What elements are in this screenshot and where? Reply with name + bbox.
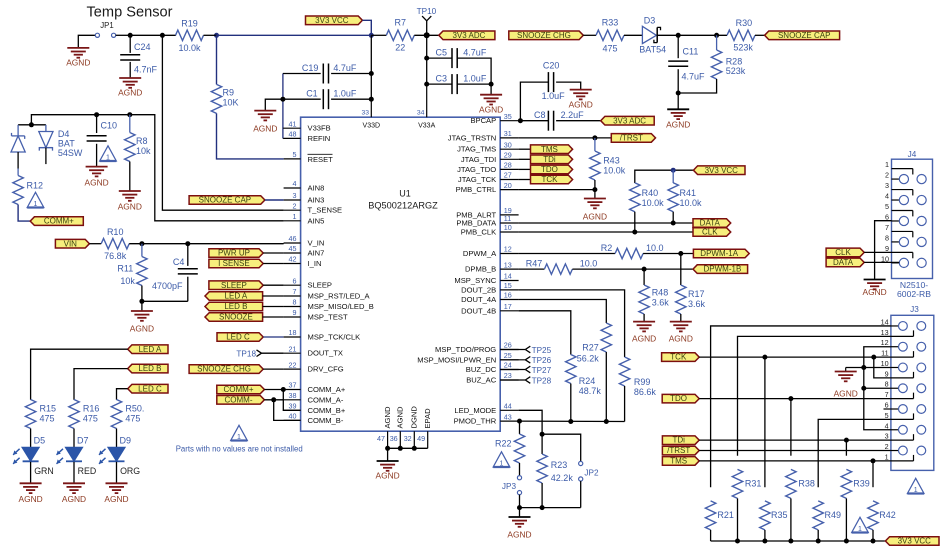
U1 pin 33 V33D: [370, 99, 372, 117]
U1 pin 20 PMB_CTRL: [500, 189, 518, 191]
svg-text:TP10: TP10: [417, 7, 437, 16]
svg-text:5: 5: [293, 150, 297, 159]
svg-text:R40: R40: [642, 188, 659, 198]
warning triangle 1 near R12: [27, 192, 44, 207]
ground AGND under R48: [633, 321, 655, 323]
svg-text:R8: R8: [136, 136, 148, 146]
svg-text:JP1: JP1: [100, 21, 113, 30]
flag TMS at J3: [662, 457, 699, 466]
svg-text:D4: D4: [58, 129, 70, 139]
svg-text:34: 34: [417, 110, 425, 117]
svg-text:C4: C4: [173, 257, 185, 267]
svg-text:5: 5: [885, 202, 889, 211]
svg-text:COMM+: COMM+: [224, 385, 254, 394]
svg-text:R22: R22: [495, 439, 512, 449]
ground AGND right of C20: [570, 89, 592, 91]
svg-text:R38: R38: [798, 479, 815, 489]
svg-text:MSP_MOSI/LPWR_EN: MSP_MOSI/LPWR_EN: [417, 355, 496, 364]
node junction TP10: [424, 32, 430, 38]
resistor R10 76.8k: [101, 239, 129, 249]
node junction COMM- pin38: [271, 397, 276, 402]
svg-text:AGND: AGND: [62, 494, 86, 504]
J3 pin circles row pins 10/9: [899, 363, 908, 372]
J4 pin circles row 2: [899, 195, 908, 204]
U1 pin 48 REFIN: [284, 137, 301, 139]
svg-text:R50.: R50.: [125, 404, 144, 414]
svg-text:I_IN: I_IN: [308, 259, 322, 268]
wire R30 to flag: [755, 34, 765, 36]
svg-text:8: 8: [885, 233, 889, 242]
svg-text:DOUT_4A: DOUT_4A: [461, 295, 497, 304]
svg-text:AGND: AGND: [479, 105, 503, 115]
flag DATA: [693, 219, 731, 228]
jumper JP2: [542, 434, 581, 461]
U1 pin 49 EPAD: [427, 431, 429, 448]
svg-text:AGND: AGND: [507, 530, 531, 540]
U1 pin 39 COMM_B+: [284, 409, 301, 411]
resistor R30 523k: [727, 30, 755, 40]
node junction R28 top: [714, 33, 719, 38]
wire COMM- to pin 40: [274, 400, 301, 421]
svg-text:27: 27: [504, 171, 512, 180]
svg-text:25: 25: [504, 351, 512, 360]
svg-text:SNOOZE CHG: SNOOZE CHG: [517, 31, 571, 40]
warning triangle under J3: [907, 478, 924, 493]
node junction R35 column: [762, 355, 767, 360]
node junction C1 right V33D: [369, 97, 374, 102]
svg-text:C1: C1: [306, 89, 318, 99]
J3 pin circles row pins 6/5: [899, 405, 908, 414]
flag 3V3 VCC mid: [693, 166, 745, 175]
svg-text:PMB_CLK: PMB_CLK: [461, 228, 496, 237]
U1 pin 16 DOUT_4A: [500, 299, 518, 301]
svg-text:3.6k: 3.6k: [652, 298, 670, 308]
ground AGND at J4: [864, 279, 886, 281]
svg-text:11: 11: [881, 349, 888, 358]
wire pin15 to R99: [519, 290, 625, 357]
resistor R42: [868, 501, 878, 530]
svg-text:4: 4: [885, 192, 889, 201]
resistor R39: [841, 469, 851, 498]
svg-text:1: 1: [293, 212, 297, 221]
wire gnd pin10 line: [846, 366, 891, 368]
U1 pin 35 BPCAP: [500, 120, 518, 122]
flag CLK at J4: [826, 248, 864, 257]
svg-text:BUZ_DC: BUZ_DC: [466, 365, 497, 374]
flag TDi to pin 29: [519, 158, 531, 160]
svg-text:V33A: V33A: [418, 123, 435, 130]
svg-text:3V3 VCC: 3V3 VCC: [705, 166, 739, 175]
svg-text:COMM_B-: COMM_B-: [308, 416, 344, 425]
svg-text:C8: C8: [534, 110, 546, 120]
wire TDi to J3 pin3: [699, 439, 891, 441]
svg-text:D9: D9: [120, 436, 132, 446]
svg-text:LED B: LED B: [138, 364, 161, 373]
svg-text:MSP_TCK/CLK: MSP_TCK/CLK: [308, 333, 361, 342]
svg-text:AGND: AGND: [669, 334, 693, 344]
node junction R7 left: [369, 33, 374, 38]
wire SNOOZE CHG to R33: [583, 34, 596, 36]
flag CLK: [693, 228, 731, 237]
node junction C11: [676, 33, 681, 38]
wire R2 to DPWM-1A: [643, 253, 693, 255]
svg-text:V33D: V33D: [363, 123, 381, 130]
wire pin43 PMOD_THR net: [519, 420, 625, 422]
ground AGND under D5: [20, 482, 42, 484]
svg-text:R43: R43: [603, 156, 620, 166]
resistor R40 10.0k: [630, 183, 640, 212]
U1 pin 23 BUZ_AC: [500, 379, 518, 381]
wire pin16 to R27: [519, 300, 607, 324]
node junction BPCAP: [518, 118, 523, 123]
wire pin17 to R24: [519, 311, 571, 355]
wire 3V3 VCC flag to rail: [362, 20, 371, 35]
svg-text:R15: R15: [40, 404, 57, 414]
svg-text:C19: C19: [302, 63, 319, 73]
svg-text:41: 41: [289, 119, 297, 128]
svg-text:AGND: AGND: [104, 494, 128, 504]
svg-text:AGND: AGND: [84, 178, 108, 188]
svg-text:R19: R19: [181, 18, 198, 28]
svg-text:1.0uF: 1.0uF: [463, 74, 487, 84]
wire junction to R7: [371, 34, 386, 36]
svg-text:7: 7: [885, 223, 889, 232]
wire pin31 to TRST junction: [519, 137, 612, 139]
svg-text:1: 1: [500, 460, 504, 467]
flag LED A to pin 7: [205, 292, 263, 301]
svg-text:/TRST: /TRST: [620, 134, 643, 143]
svg-text:42: 42: [289, 255, 297, 264]
svg-text:10k: 10k: [136, 146, 151, 156]
svg-text:LED_MODE: LED_MODE: [454, 406, 496, 415]
svg-text:1: 1: [237, 434, 241, 441]
flag /TRST at J3: [662, 446, 699, 455]
svg-text:AGND: AGND: [583, 211, 607, 221]
U1 pin 21 DOUT_TX: [284, 352, 301, 354]
wire DATA to J4 pin 10: [864, 261, 899, 263]
J3 pin circles row pins 8/7: [899, 384, 908, 393]
svg-text:1: 1: [885, 160, 889, 169]
svg-text:DPMB_B: DPMB_B: [465, 265, 496, 274]
svg-text:7: 7: [885, 390, 889, 399]
svg-text:PMOD_THR: PMOD_THR: [454, 417, 497, 426]
svg-text:SNOOZE CAP: SNOOZE CAP: [778, 31, 830, 40]
svg-text:LED B: LED B: [224, 302, 247, 311]
svg-text:3.6k: 3.6k: [688, 299, 706, 309]
flag DPWM-1B: [693, 265, 748, 274]
U1 pin 4 AIN8: [284, 187, 301, 189]
flag 3V3 VCC top: [306, 16, 363, 25]
wire C20 right to ground: [556, 82, 581, 90]
resistor R43 10.0k: [594, 138, 596, 151]
svg-text:COMM+: COMM+: [44, 217, 74, 226]
wire 3V3 rail R19 to R7: [204, 34, 217, 36]
resistor R23 42.2k: [541, 434, 543, 454]
flag 3V3 ADC top: [439, 31, 495, 40]
resistor R19 10.0k: [176, 30, 204, 40]
U1 pin 29 JTAG_TDI: [500, 158, 518, 160]
svg-text:16: 16: [504, 291, 512, 300]
U1 pin 37 COMM_A+: [284, 389, 301, 391]
svg-text:V_IN: V_IN: [308, 239, 325, 248]
svg-text:CLK: CLK: [702, 228, 718, 237]
svg-text:1: 1: [914, 487, 918, 494]
wire J3 pin13 to R31 column: [738, 336, 891, 455]
resistor R12: [17, 169, 19, 176]
resistor R49: [813, 501, 823, 530]
svg-text:2.2uF: 2.2uF: [561, 110, 585, 120]
testpoint TP26: [500, 359, 525, 361]
ground AGND under C24: [119, 77, 141, 79]
wire R33 to D3: [624, 34, 642, 36]
svg-text:PMB_DATA: PMB_DATA: [456, 219, 497, 228]
svg-text:49: 49: [417, 434, 425, 443]
U1 pin 12 DPWM_A: [500, 253, 518, 255]
svg-text:AGND: AGND: [396, 406, 405, 428]
J4 pin circles row 1: [899, 174, 908, 183]
svg-text:LED C: LED C: [226, 333, 250, 342]
svg-text:TMS: TMS: [670, 457, 687, 466]
resistor R7 22: [386, 30, 414, 40]
svg-text:2: 2: [293, 201, 297, 210]
svg-text:JP2: JP2: [584, 469, 599, 478]
flag 3V3 VCC bottom: [885, 537, 939, 546]
wire D3 to junctions: [657, 34, 727, 36]
svg-text:4.7uF: 4.7uF: [463, 48, 487, 58]
wire R28 bottom to C11 bottom: [678, 79, 716, 93]
node junction C4: [185, 241, 190, 246]
svg-text:475: 475: [40, 414, 55, 424]
svg-text:TP18: TP18: [236, 349, 256, 358]
svg-text:26: 26: [504, 341, 512, 350]
J3 pin circles row pins 14/13: [899, 322, 908, 331]
svg-text:22: 22: [395, 43, 405, 53]
svg-text:C3: C3: [436, 74, 448, 84]
svg-text:MSP_SYNC: MSP_SYNC: [454, 276, 496, 285]
svg-text:T_SENSE: T_SENSE: [308, 206, 343, 215]
U1 pin 6 SLEEP: [284, 284, 301, 286]
flag SNOOZE to pin 9: [205, 313, 263, 322]
flag SLEEP to pin 6: [209, 281, 263, 290]
svg-text:MSP_TDO/PROG: MSP_TDO/PROG: [435, 345, 496, 354]
capacitor C1 1.0uF: [283, 98, 321, 100]
U1 pin 34 V33A: [426, 84, 428, 117]
svg-text:R35: R35: [771, 510, 788, 520]
node junction R41 top: [671, 168, 676, 173]
svg-text:D5: D5: [34, 436, 46, 446]
U1 pin 17 DOUT_4B: [500, 310, 518, 312]
wire 3V3 VCC bottom rail: [711, 540, 886, 542]
svg-text:C10: C10: [101, 121, 118, 131]
node junction R42 column: [871, 458, 876, 463]
J4 pin circles row 3: [899, 216, 908, 225]
svg-text:39: 39: [289, 402, 297, 411]
wire V33A column down: [426, 35, 428, 84]
flag VIN: [55, 239, 89, 248]
wire R35 column: [764, 357, 766, 487]
svg-text:LED A: LED A: [225, 292, 248, 301]
svg-text:23: 23: [504, 371, 512, 380]
ground AGND at JP1: [78, 35, 95, 48]
resistor R24 48.7k: [566, 355, 576, 384]
svg-text:MSP_RST/LED_A: MSP_RST/LED_A: [308, 292, 371, 301]
svg-text:11: 11: [504, 214, 511, 223]
svg-text:43: 43: [504, 412, 512, 421]
ground AGND under C11: [677, 93, 679, 109]
svg-text:20: 20: [504, 181, 512, 190]
warning triangle 1 near note: [231, 425, 248, 440]
svg-text:BAT54: BAT54: [639, 45, 666, 55]
svg-text:EPAD: EPAD: [423, 408, 432, 429]
svg-text:TP26: TP26: [532, 356, 552, 365]
U1 pin 25 MSP_MOSI/LPWR_EN: [500, 359, 518, 361]
svg-text:48: 48: [289, 130, 297, 139]
svg-text:10k: 10k: [120, 276, 135, 286]
svg-text:COMM_A-: COMM_A-: [308, 395, 344, 404]
svg-text:523k: 523k: [733, 43, 753, 53]
wire to AGND left of C1: [265, 99, 283, 110]
svg-text:BQ500212ARGZ: BQ500212ARGZ: [368, 201, 438, 211]
svg-text:9: 9: [293, 308, 297, 317]
svg-text:14: 14: [504, 272, 512, 281]
svg-text:RESET: RESET: [308, 155, 334, 164]
svg-text:5: 5: [885, 411, 889, 420]
svg-text:30: 30: [504, 140, 512, 149]
U1 pin 18 MSP_TCK/CLK: [284, 336, 301, 338]
svg-text:4.7uF: 4.7uF: [333, 63, 357, 73]
IC U1 BQ500212ARGZ body: [301, 117, 501, 431]
node junction T_SENSE drop: [160, 33, 165, 38]
U1 pin 32 DGND: [413, 431, 415, 448]
testpoint TP25: [500, 349, 525, 351]
wire TCK step to pin9: [874, 357, 891, 378]
svg-text:475: 475: [602, 43, 617, 53]
wire R42 column down: [872, 461, 874, 487]
svg-text:R21: R21: [717, 510, 734, 520]
flag LED C left: [128, 384, 168, 393]
node junction R38 column: [788, 396, 793, 401]
wire pin10 PMB_CLK to CLK flag: [519, 231, 693, 233]
svg-text:AGND: AGND: [18, 494, 42, 504]
svg-text:3V3 ADC: 3V3 ADC: [613, 116, 646, 125]
svg-text:R42: R42: [879, 510, 896, 520]
flag LED A left: [128, 345, 168, 354]
flag TDO to pin 28: [519, 168, 531, 170]
svg-text:DATA: DATA: [700, 219, 721, 228]
ground AGND under R43: [594, 190, 596, 199]
svg-text:21: 21: [289, 344, 297, 353]
wire pin12 to R2: [519, 253, 616, 255]
svg-text:Temp Sensor: Temp Sensor: [87, 5, 173, 21]
svg-text:10.0: 10.0: [646, 243, 664, 253]
U1 pin 10 PMB_CLK: [500, 231, 518, 233]
svg-text:MSP_MISO/LED_B: MSP_MISO/LED_B: [308, 302, 374, 311]
svg-text:/TRST: /TRST: [667, 446, 690, 455]
svg-text:R27: R27: [582, 343, 599, 353]
flag TMS to pin 30: [519, 148, 531, 150]
svg-text:C5: C5: [436, 48, 448, 58]
svg-text:U1: U1: [399, 189, 411, 199]
ground AGND under C10: [86, 166, 108, 168]
svg-text:R2: R2: [601, 243, 613, 253]
svg-text:JP3: JP3: [502, 482, 517, 491]
svg-text:DPWM-1A: DPWM-1A: [700, 249, 738, 258]
svg-text:8: 8: [885, 380, 889, 389]
svg-text:24: 24: [504, 361, 512, 370]
svg-text:AGND: AGND: [66, 57, 90, 67]
svg-text:6002-RB: 6002-RB: [897, 289, 931, 299]
U1 pin 2 T_SENSE: [284, 209, 301, 211]
svg-text:22: 22: [289, 360, 297, 369]
svg-text:R24: R24: [579, 376, 596, 386]
svg-text:4: 4: [885, 421, 889, 430]
wire R7 to TP10 node: [414, 34, 439, 36]
ground AGND under R11: [141, 301, 143, 311]
flag LED B left: [128, 364, 168, 373]
wire R47 to DPWM-1B: [572, 268, 693, 270]
svg-text:RED: RED: [78, 466, 97, 476]
node junction C24: [128, 33, 133, 38]
svg-text:AGND: AGND: [383, 406, 392, 428]
diode D4 BAT 54SW dual: [18, 124, 46, 126]
svg-text:AGND: AGND: [118, 202, 142, 212]
svg-text:TDi: TDi: [672, 436, 685, 445]
wire C1 right: [331, 98, 371, 100]
svg-text:38: 38: [289, 391, 297, 400]
flag DPWM-1A: [693, 249, 749, 258]
svg-text:R7: R7: [395, 17, 407, 27]
svg-text:MSP_TEST: MSP_TEST: [308, 313, 348, 322]
svg-text:AIN7: AIN7: [308, 249, 325, 258]
svg-text:COMM_B+: COMM_B+: [308, 406, 346, 415]
svg-text:JTAG_TCK: JTAG_TCK: [458, 175, 496, 184]
resistor R27 56.2k: [601, 323, 611, 352]
svg-text:12: 12: [881, 338, 889, 347]
flag COMM+ left: [30, 217, 83, 226]
svg-text:TCK: TCK: [670, 353, 687, 362]
wire pin44 LED_MODE down: [519, 410, 543, 434]
resistor R99 86.6k: [619, 357, 629, 386]
flag LED B to pin 8: [205, 302, 263, 311]
svg-text:R12: R12: [27, 181, 44, 191]
svg-text:3V3 VCC: 3V3 VCC: [315, 16, 349, 25]
resistor R9 10K: [216, 35, 218, 84]
svg-text:10.0: 10.0: [580, 259, 598, 269]
svg-text:18: 18: [289, 328, 297, 337]
U1 pin 26 MSP_TDO/PROG: [500, 349, 518, 351]
node junction R8: [127, 112, 132, 117]
capacitor C11 4.7uF: [677, 35, 679, 58]
flag LED C to pin 18: [217, 333, 263, 342]
svg-text:JTAG_TMS: JTAG_TMS: [457, 145, 496, 154]
svg-text:SNOOZE CAP: SNOOZE CAP: [199, 196, 251, 205]
svg-text:10: 10: [504, 223, 512, 232]
svg-text:TP25: TP25: [532, 346, 552, 355]
resistor R15 475: [25, 400, 35, 429]
flag TDi at J3: [662, 436, 699, 445]
jumper JP3: [519, 463, 521, 476]
node junction TCK step: [871, 355, 876, 360]
svg-text:C20: C20: [543, 60, 560, 70]
ground AGND under R17: [670, 321, 692, 323]
node junction R43 top: [592, 135, 597, 140]
svg-text:R47: R47: [526, 259, 543, 269]
resistor R48 3.6k: [643, 269, 645, 285]
ground AGND under D9: [106, 482, 128, 484]
resistor R35: [760, 501, 770, 530]
flag PWR UP to pin 45: [209, 249, 263, 258]
wire J3 pin14 to R21 column: [711, 326, 891, 487]
